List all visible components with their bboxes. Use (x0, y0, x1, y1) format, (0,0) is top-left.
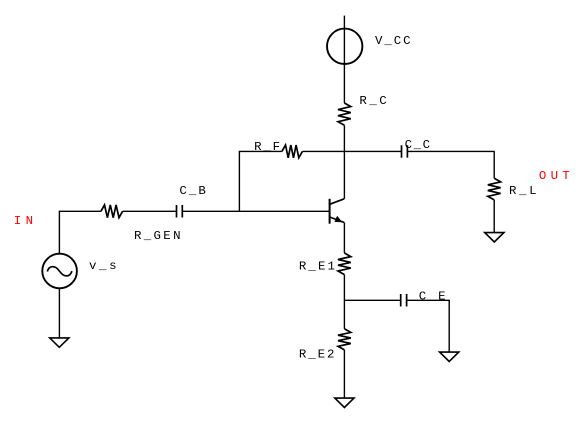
capacitor C_B (177, 205, 183, 218)
resistor R_F (282, 145, 303, 158)
wire R_GEN to C_B (123, 210, 177, 212)
wire R_E1 to R_E2 (343, 275, 345, 329)
svg-text:R_F: R_F (254, 140, 280, 154)
wire C_C to R_L corner (407, 151, 494, 178)
svg-text:R_L: R_L (509, 184, 537, 198)
capacitor C_E (401, 294, 407, 307)
svg-text:R_E1: R_E1 (299, 259, 335, 273)
wire junction to C_E (344, 299, 400, 301)
svg-text:C_C: C_C (405, 138, 431, 152)
svg-text:C_B: C_B (179, 184, 205, 198)
source v_s (42, 254, 77, 289)
wire R_E2 to ground (343, 350, 345, 398)
resistor R_E2 (338, 329, 351, 350)
wire C_E to ground corner (407, 300, 450, 352)
wire C_B to base (182, 210, 329, 212)
svg-text:R_GEN: R_GEN (134, 229, 181, 243)
wire v_s to ground (58, 288, 60, 338)
svg-text:V_CC: V_CC (375, 34, 411, 48)
wire V_CC vertical through source down to R_C (343, 16, 345, 103)
ground (C_E) (440, 352, 459, 361)
wire R_L to ground (493, 200, 495, 233)
svg-text:R_E2: R_E2 (299, 348, 335, 362)
resistor R_L (488, 178, 501, 200)
ground (R_E2) (335, 398, 354, 407)
svg-text:OUT: OUT (539, 169, 570, 183)
voltage source V_CC (327, 29, 362, 64)
svg-text:R_C: R_C (359, 94, 386, 108)
svg-text:v_s: v_s (89, 259, 117, 273)
svg-text:IN: IN (14, 214, 33, 228)
wire input to R_GEN (59, 211, 101, 253)
wire emitter down (343, 223, 345, 254)
wire R_F to C_C (302, 150, 401, 152)
capacitor C_C (402, 145, 408, 158)
resistor R_GEN (101, 205, 123, 218)
wire R_F left segment and branch down (239, 151, 282, 211)
ground (R_L) (485, 233, 504, 242)
wire R_C to collector (343, 125, 345, 199)
resistor R_E1 (338, 253, 351, 275)
ground (v_s) (50, 338, 69, 347)
transistor Q1 NPN (330, 199, 345, 224)
resistor R_C (338, 103, 351, 125)
svg-text:C_E: C_E (419, 289, 446, 303)
